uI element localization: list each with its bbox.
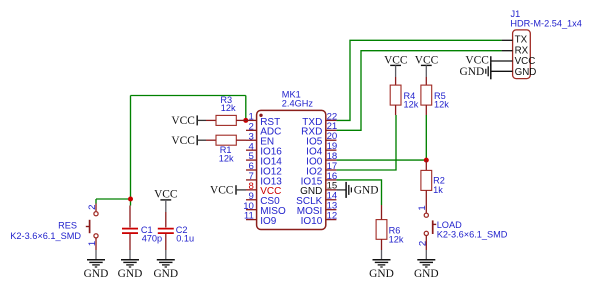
IC MK1 pin 11 (IO9) stub — [246, 219, 257, 221]
svg-text:VCC: VCC — [171, 115, 194, 127]
svg-text:HDR-M-2.54_1x4: HDR-M-2.54_1x4 — [510, 18, 581, 28]
ground under RES — [84, 250, 109, 280]
IC MK1 pin 17 (IO2) stub — [326, 169, 337, 171]
svg-text:GND: GND — [354, 185, 379, 197]
wire IO2 pin17 up to R4 — [336, 115, 396, 170]
ground flag at J1 — [460, 63, 491, 79]
power flag VCC above C2 — [154, 189, 177, 212]
IC MK1 pin 9 (CS0) stub — [246, 199, 257, 201]
svg-text:K2-3.6×6.1_SMD: K2-3.6×6.1_SMD — [437, 230, 508, 240]
pushbutton RES pin 2 wire — [95, 204, 97, 212]
svg-text:1k: 1k — [433, 185, 443, 195]
ground flag at IC pin 15 — [336, 182, 378, 198]
IC MK1 pin 15 (GND) stub — [326, 189, 337, 191]
power flag VCC above R5 — [415, 55, 438, 77]
junction node IO0/R5/R2 — [424, 158, 429, 163]
IC MK1 pin 14 (SCLK) stub — [326, 199, 337, 201]
svg-text:0.1u: 0.1u — [176, 234, 194, 244]
IC MK1 pin 10 (MISO) stub — [246, 209, 257, 211]
connector J1 pin VCC stub — [491, 60, 513, 62]
svg-text:VCC: VCC — [465, 55, 488, 67]
pushbutton RES pin 1 wire — [95, 238, 97, 250]
svg-text:K2-3.6×6.1_SMD: K2-3.6×6.1_SMD — [10, 231, 81, 241]
svg-text:12k: 12k — [219, 153, 234, 163]
wire net RST right vertical drop to pin 1 — [245, 96, 247, 121]
ground under R6 — [369, 250, 394, 280]
wire RXD pin21 to J1 RX — [336, 51, 501, 131]
svg-text:LOAD: LOAD — [437, 220, 462, 230]
IC MK1 pin 7 (IO13) stub — [246, 179, 257, 181]
svg-text:GND: GND — [153, 268, 178, 280]
capacitor C1 470p — [122, 206, 138, 251]
IC MK1 first-pin dot — [259, 114, 262, 117]
svg-text:R2: R2 — [433, 176, 445, 186]
resistor R4 12k — [390, 77, 401, 115]
IC MK1 pin 16 (IO15) stub — [326, 179, 337, 181]
resistor R2 1k — [421, 160, 432, 213]
power flag VCC at IC pin 8 — [210, 185, 246, 197]
pushbutton RES K2-3.6x6.1_SMD — [86, 212, 98, 238]
resistor R3 12k — [206, 115, 246, 125]
connector J1 pin RX stub — [502, 50, 513, 52]
svg-text:GND: GND — [84, 268, 109, 280]
wire IO0 pin18 to R2/R5 junction — [336, 159, 426, 161]
power flag VCC above R4 — [384, 55, 407, 77]
svg-text:GND: GND — [460, 66, 485, 78]
resistor R6 12k — [376, 205, 387, 250]
IC MK1 pin 20 (IO5) stub — [326, 139, 337, 141]
ground under LOAD — [414, 250, 439, 280]
wire stub to C1 top — [130, 199, 132, 206]
resistor R5 12k — [421, 77, 432, 115]
power flag VCC at R3 — [171, 115, 206, 127]
wire net RST top-left horizontal — [131, 95, 246, 97]
power flag VCC at J1 — [465, 55, 490, 67]
svg-text:12k: 12k — [404, 100, 419, 110]
svg-text:2: 2 — [87, 205, 98, 210]
svg-text:VCC: VCC — [515, 56, 536, 67]
IC MK1 pin 19 (IO4) stub — [326, 149, 337, 151]
IC MK1 pin 6 (IO12) stub — [246, 169, 257, 171]
IC MK1 pin 12 (IO10) stub — [326, 219, 337, 221]
IC MK1 pin 13 (MOSI) stub — [326, 209, 337, 211]
svg-text:1: 1 — [417, 205, 428, 210]
IC MK1 pin 3 (EN) stub — [246, 139, 257, 141]
wire R5 bottom to junction — [425, 115, 427, 160]
svg-text:VCC: VCC — [171, 135, 194, 147]
svg-text:GND: GND — [369, 268, 394, 280]
ground under C1 — [118, 250, 143, 280]
connector J1 pin TX stub — [502, 39, 513, 41]
wire net RST left vertical down to junction — [130, 96, 132, 200]
svg-text:IO9: IO9 — [260, 216, 277, 227]
IC MK1 pin 1 (RST) stub — [246, 119, 257, 121]
connector J1 pin GND stub — [491, 70, 513, 72]
svg-text:GND: GND — [118, 268, 143, 280]
svg-text:12k: 12k — [389, 234, 404, 244]
power flag VCC at R1 — [171, 135, 206, 147]
capacitor C2 0.1u — [158, 212, 174, 250]
IC MK1 pin 4 (IO16) stub — [246, 149, 257, 151]
ground under C2 — [153, 250, 178, 280]
wire stub to RES pin 2 — [95, 199, 97, 204]
IC MK1 pin 21 (RXD) stub — [326, 129, 337, 131]
svg-text:TX: TX — [515, 35, 528, 46]
resistor R1 12k — [206, 135, 246, 145]
junction node RST at pin 1 — [243, 118, 248, 123]
pushbutton LOAD pin 2 wire — [425, 236, 427, 250]
IC MK1 pin 8 (VCC) stub — [246, 189, 257, 191]
svg-text:2.4GHz: 2.4GHz — [282, 99, 314, 109]
IC MK1 pin 18 (IO0) stub — [326, 159, 337, 161]
wire IO15 pin16 down to R6 — [336, 180, 381, 205]
svg-text:RX: RX — [515, 45, 529, 56]
svg-text:12k: 12k — [221, 103, 236, 113]
svg-text:GND: GND — [414, 268, 439, 280]
svg-text:12k: 12k — [434, 100, 449, 110]
svg-text:VCC: VCC — [210, 185, 233, 197]
IC MK1 pin 2 (ADC) stub — [246, 129, 257, 131]
wire junction to RES switch — [96, 198, 131, 200]
svg-text:RES: RES — [58, 220, 77, 230]
IC MK1 pin 22 (TXD) stub — [326, 119, 337, 121]
op IC U: chip MK1 body — [257, 110, 326, 229]
svg-text:GND: GND — [515, 67, 537, 78]
svg-text:12: 12 — [327, 211, 338, 222]
wire TXD pin22 to J1 TX — [336, 40, 501, 120]
IC MK1 pin 5 (IO14) stub — [246, 159, 257, 161]
connector J1 body — [513, 30, 531, 79]
svg-text:470p: 470p — [142, 234, 162, 244]
svg-text:11: 11 — [244, 211, 254, 222]
junction node at C1/RES — [128, 197, 133, 202]
pushbutton LOAD K2-3.6x6.1_SMD — [424, 213, 436, 235]
svg-text:IO10: IO10 — [301, 216, 323, 227]
svg-text:VCC: VCC — [154, 189, 177, 201]
